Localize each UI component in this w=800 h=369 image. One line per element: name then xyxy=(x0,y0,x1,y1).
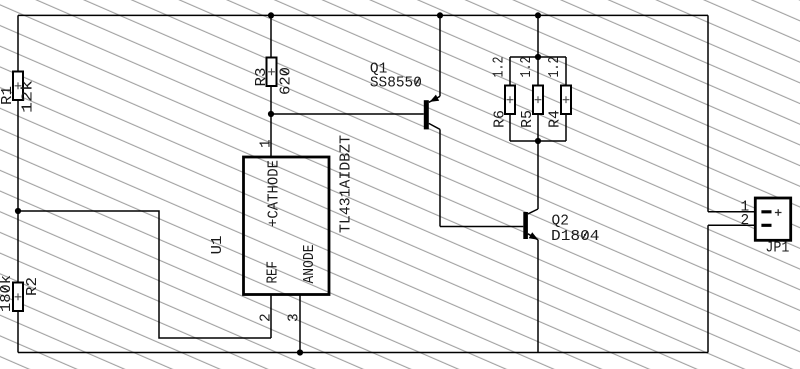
svg-text:2: 2 xyxy=(259,313,275,322)
svg-text:REF: REF xyxy=(266,261,282,284)
svg-text:R6: R6 xyxy=(493,110,509,128)
svg-text:1.2: 1.2 xyxy=(519,57,535,78)
svg-text:R5: R5 xyxy=(520,110,536,128)
svg-text:180k: 180k xyxy=(0,275,15,312)
svg-text:R2: R2 xyxy=(25,277,41,296)
svg-text:SS8550: SS8550 xyxy=(370,75,422,91)
svg-text:R1: R1 xyxy=(0,86,16,105)
svg-text:Q2: Q2 xyxy=(552,214,569,230)
svg-text:1: 1 xyxy=(259,139,275,148)
svg-text:12k: 12k xyxy=(21,80,37,113)
svg-text:3: 3 xyxy=(287,313,303,322)
svg-text:1.2: 1.2 xyxy=(492,57,508,78)
svg-text:2: 2 xyxy=(741,213,750,229)
svg-text:ANODE: ANODE xyxy=(302,245,318,284)
svg-text:R4: R4 xyxy=(548,110,564,128)
svg-text:TL431AIDBZT: TL431AIDBZT xyxy=(339,135,355,233)
svg-text:JP1: JP1 xyxy=(765,241,789,257)
svg-text:D1804: D1804 xyxy=(551,229,600,245)
svg-text:U1: U1 xyxy=(210,236,226,255)
svg-text:620: 620 xyxy=(279,67,295,95)
svg-text:+CATHODE: +CATHODE xyxy=(267,160,283,227)
svg-text:R3: R3 xyxy=(254,68,270,87)
svg-text:1.2: 1.2 xyxy=(547,57,563,78)
